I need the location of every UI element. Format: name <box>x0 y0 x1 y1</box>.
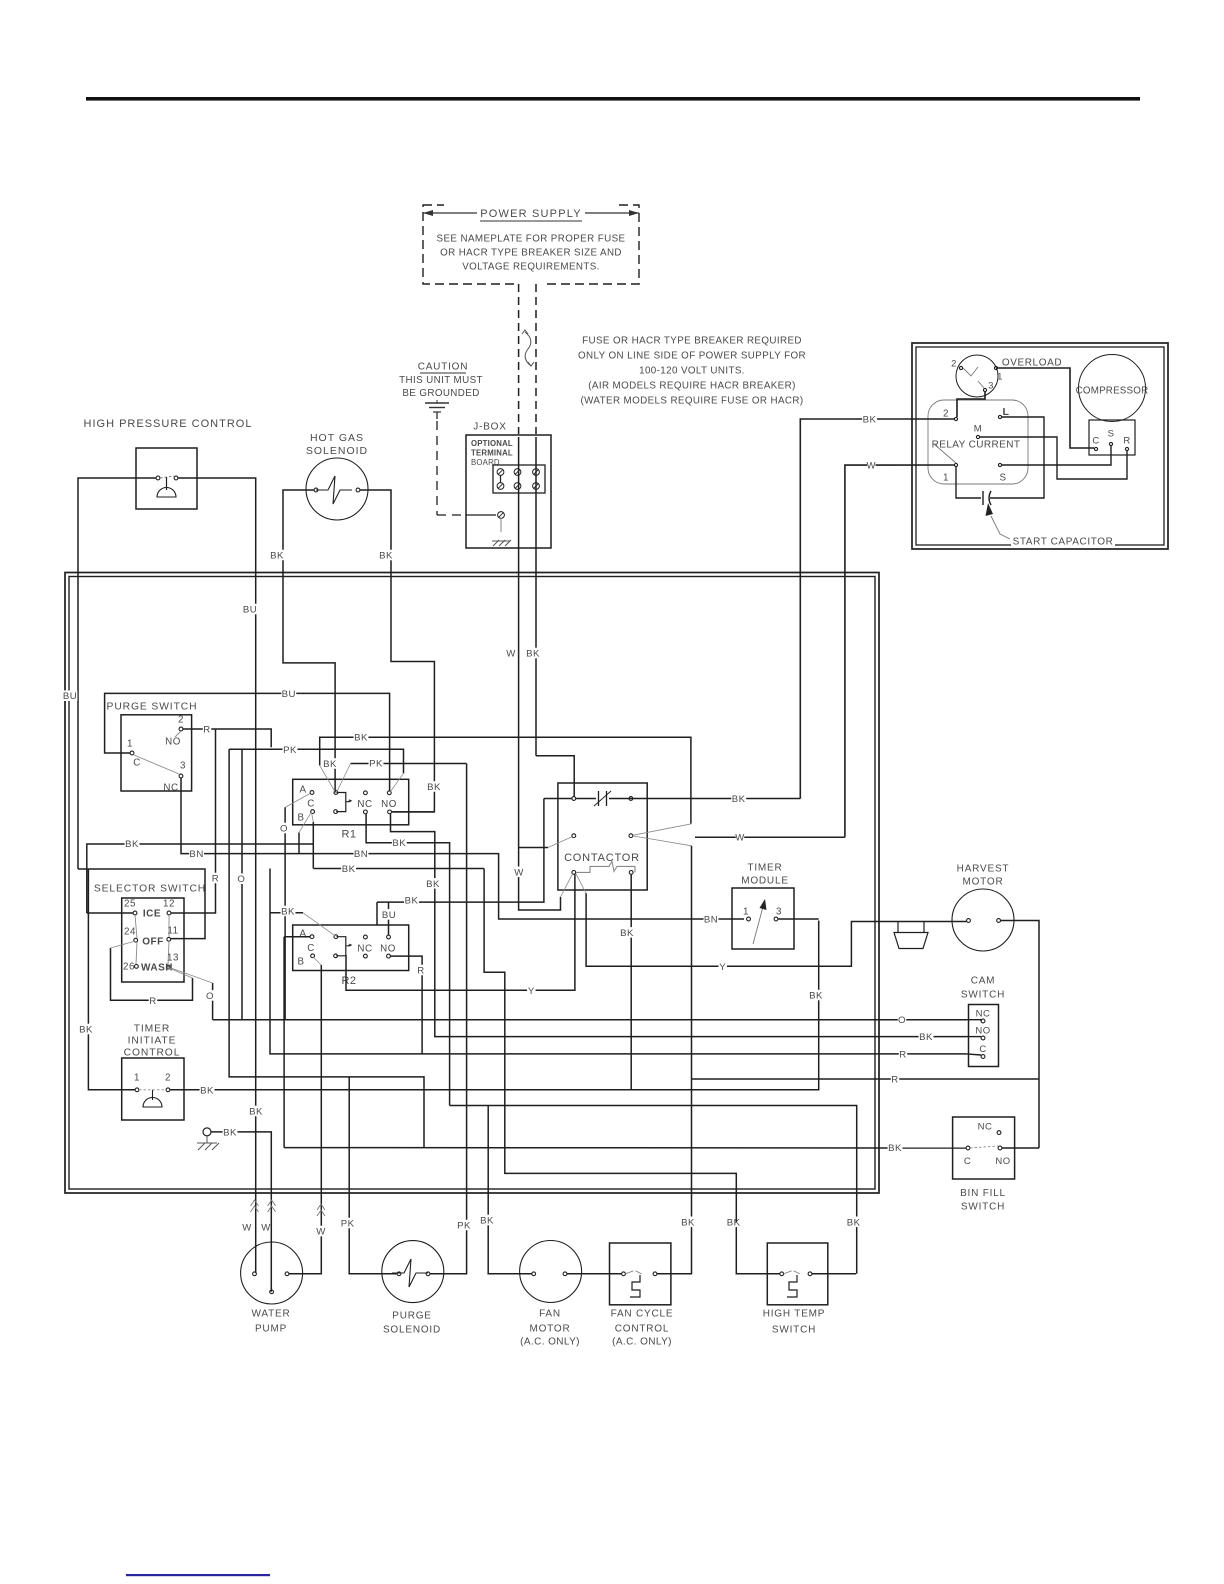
label PK left <box>340 1218 355 1229</box>
label PK right <box>457 1220 472 1231</box>
label PK stub <box>369 758 384 769</box>
high temp box <box>767 1243 828 1305</box>
svg-text:C: C <box>1092 435 1099 446</box>
svg-text:CONTROL: CONTROL <box>615 1324 670 1335</box>
svg-text:Y: Y <box>719 962 726 973</box>
selector switch title <box>94 882 205 893</box>
wire BU sel11 <box>78 869 205 939</box>
svg-text:TERMINAL: TERMINAL <box>471 448 513 457</box>
label BK868 <box>341 863 356 874</box>
wire fan cycle riser <box>657 846 692 1274</box>
svg-text:BN: BN <box>354 849 368 860</box>
wire BK844 <box>87 844 313 913</box>
water pump title1 <box>253 1308 290 1319</box>
start capacitor leader <box>991 516 1010 539</box>
svg-text:R: R <box>203 724 210 735</box>
terminal screw 31 <box>533 469 540 476</box>
wire capacitor to relay L <box>990 417 1044 498</box>
fan cycle title1 <box>610 1308 675 1319</box>
label PK main <box>283 744 298 755</box>
label BK hotgas drop <box>323 758 338 769</box>
wire purge sol right <box>430 764 467 1274</box>
svg-text:BU: BU <box>243 604 257 615</box>
purge switch title <box>107 700 196 711</box>
bin fill switch box <box>953 1117 1015 1179</box>
label W3 <box>317 1226 325 1237</box>
circuit breaker symbol <box>525 332 531 366</box>
svg-text:2: 2 <box>943 409 949 420</box>
svg-text:NO: NO <box>975 1025 990 1036</box>
wire cam NO in <box>967 1036 982 1038</box>
svg-text:BK: BK <box>727 1217 741 1228</box>
wire cam NC in <box>967 1020 982 1021</box>
wire R loop <box>111 948 193 1000</box>
wire R2 Y drop <box>346 874 575 990</box>
svg-text:FAN CYCLE: FAN CYCLE <box>611 1309 674 1320</box>
wire purge1 BU loop <box>105 693 390 791</box>
high temp title1 <box>762 1308 827 1319</box>
selector wipers <box>135 915 169 965</box>
overload title <box>1004 357 1060 368</box>
main enclosure outer box <box>65 573 879 1194</box>
timer terminals <box>747 917 751 921</box>
tic wiper <box>139 1089 166 1091</box>
svg-text:BK: BK <box>392 838 406 849</box>
label R cam line <box>899 1049 907 1060</box>
wire R1C drop <box>312 822 314 869</box>
purge wiper <box>134 755 179 774</box>
purge solenoid circle <box>382 1241 444 1303</box>
svg-text:S: S <box>999 473 1006 484</box>
high temp title2 <box>772 1324 816 1335</box>
svg-text:(AIR MODELS REQUIRE HACR BREAK: (AIR MODELS REQUIRE HACR BREAKER) <box>588 381 796 392</box>
wire PK main <box>229 749 403 773</box>
svg-text:MOTOR: MOTOR <box>962 877 1003 888</box>
svg-text:NO: NO <box>381 799 397 810</box>
wire purge2 R <box>183 729 271 747</box>
svg-text:BK: BK <box>125 839 139 850</box>
wire sel25 stub <box>87 912 133 914</box>
wire PK left drop <box>229 749 424 1147</box>
svg-text:BK: BK <box>323 759 337 770</box>
svg-text:VOLTAGE REQUIREMENTS.: VOLTAGE REQUIREMENTS. <box>462 262 600 273</box>
fan cycle title3 <box>605 1336 680 1347</box>
svg-text:BN: BN <box>704 914 718 925</box>
svg-text:NC: NC <box>976 1008 991 1019</box>
purge switch box <box>121 715 192 791</box>
terminal screw 22 <box>514 483 521 490</box>
label BK timer drop <box>809 990 824 1001</box>
wire contactor coil drop <box>630 874 632 1089</box>
wire BK1090 <box>170 921 819 1090</box>
wire binfill NO out <box>1002 1147 1039 1149</box>
svg-text:MODULE: MODULE <box>741 876 789 887</box>
svg-text:BK: BK <box>863 414 877 425</box>
bin fill title2 <box>961 1201 1005 1212</box>
wire hot gas left BK <box>283 490 335 793</box>
svg-text:BK: BK <box>270 550 284 561</box>
wire supply L2 dashed <box>535 284 537 434</box>
svg-text:INITIATE: INITIATE <box>128 1036 177 1047</box>
svg-text:SOLENOID: SOLENOID <box>383 1325 441 1336</box>
label BU main <box>281 688 296 699</box>
fan motor title2 <box>532 1323 569 1334</box>
svg-text:1: 1 <box>743 907 749 918</box>
terminal screw 12 <box>497 483 504 490</box>
leader W coil <box>561 874 573 897</box>
wire binfill drop <box>283 937 285 1148</box>
fan cycle box <box>610 1243 671 1305</box>
timer arrow <box>753 903 764 944</box>
svg-text:BK: BK <box>620 928 634 939</box>
label R purge2 <box>203 724 211 735</box>
cam switch title1 <box>972 975 995 986</box>
hot gas solenoid element <box>316 476 352 504</box>
label O cam <box>898 1014 906 1025</box>
svg-text:100-120 VOLT UNITS.: 100-120 VOLT UNITS. <box>639 366 745 377</box>
wire binfill BK line <box>284 1147 966 1149</box>
purge terminals <box>179 727 183 731</box>
water pump circle <box>241 1242 303 1304</box>
svg-text:24: 24 <box>124 927 136 938</box>
wire compressor S to relay S <box>1002 446 1111 465</box>
svg-text:B: B <box>297 957 304 968</box>
svg-text:2: 2 <box>165 1073 171 1084</box>
svg-text:BK: BK <box>379 550 393 561</box>
wire BU R2NO <box>388 902 390 935</box>
fan motor terminals <box>532 1272 536 1276</box>
top rule <box>86 97 1140 101</box>
wire R1NCbot <box>366 814 450 1106</box>
bin terminals <box>997 1131 1001 1135</box>
relay wiper <box>934 444 956 463</box>
label BK912 <box>281 906 296 917</box>
label BN right2 <box>354 848 369 859</box>
svg-text:PK: PK <box>341 1218 355 1229</box>
label R vert <box>211 873 219 884</box>
svg-text:BK: BK <box>427 782 441 793</box>
svg-text:WATER: WATER <box>252 1309 291 1320</box>
compressor terminal box <box>1089 420 1135 455</box>
wire ground dashed down <box>436 421 438 515</box>
wire R1079 <box>692 1078 1040 1080</box>
svg-text:BU: BU <box>63 691 77 702</box>
label W contactor <box>515 867 523 878</box>
label BK tic right <box>200 1085 215 1096</box>
svg-text:PK: PK <box>369 758 383 769</box>
label BK camNO <box>919 1031 934 1042</box>
chevron W3 <box>317 1204 325 1216</box>
svg-text:(A.C. ONLY): (A.C. ONLY) <box>520 1337 580 1348</box>
label BU hpc left <box>63 690 78 701</box>
caution title <box>418 361 469 372</box>
svg-text:POWER SUPPLY: POWER SUPPLY <box>480 208 582 220</box>
label BN left <box>189 848 204 859</box>
label BK supply <box>526 648 541 659</box>
wire BK868 drop chain <box>484 869 737 1174</box>
tic title1 <box>133 1022 171 1033</box>
wire relay1 to capacitor <box>956 467 981 498</box>
svg-text:O: O <box>280 823 288 834</box>
wire fan motor drop <box>488 1106 532 1274</box>
chevron W2 <box>268 1200 276 1212</box>
harvest motor title1 <box>958 863 1009 874</box>
svg-text:R: R <box>212 873 219 884</box>
svg-text:(WATER MODELS REQUIRE FUSE OR: (WATER MODELS REQUIRE FUSE OR HACR) <box>580 396 803 407</box>
label R R2NO <box>417 965 425 976</box>
leader sel13 <box>169 968 192 978</box>
harvest terminals <box>967 919 971 923</box>
relay R1 box <box>293 779 409 825</box>
leader sel24 <box>111 941 135 948</box>
svg-text:A: A <box>299 929 306 940</box>
fan cycle switch <box>626 1271 642 1274</box>
timer module title2 <box>743 875 787 886</box>
svg-text:C: C <box>964 1156 971 1167</box>
harvest plug symbol <box>894 922 928 949</box>
leader mid right dn <box>633 836 692 846</box>
leader R1B <box>299 813 311 833</box>
wire ground dashed right <box>437 514 464 516</box>
label BN timer <box>704 914 719 925</box>
label BK hotgas right drop <box>427 781 442 792</box>
label BK feed <box>862 414 877 425</box>
svg-text:NO: NO <box>380 944 396 955</box>
wire BK737 <box>320 737 691 824</box>
leader R2C <box>313 957 321 965</box>
label O vert <box>237 873 245 884</box>
wire camNO vert <box>391 814 967 1037</box>
leader sel13 O <box>170 968 212 983</box>
label W right <box>736 832 744 843</box>
svg-text:BU: BU <box>382 910 396 921</box>
svg-text:1: 1 <box>127 739 133 750</box>
R2 terminals <box>310 935 314 939</box>
svg-text:J-BOX: J-BOX <box>473 422 506 433</box>
selector terminals <box>133 911 137 915</box>
svg-text:BK: BK <box>79 1024 93 1035</box>
leader R1A <box>285 794 310 808</box>
svg-text:W: W <box>261 1222 271 1233</box>
label BK hot gas left <box>270 550 285 561</box>
j-box outline <box>466 435 551 548</box>
svg-text:PK: PK <box>457 1220 471 1231</box>
leader mid right up <box>633 824 692 835</box>
svg-text:SWITCH: SWITCH <box>961 1202 1005 1213</box>
svg-text:R: R <box>899 1049 906 1060</box>
caution underline <box>420 372 466 374</box>
power supply right arrow <box>585 212 639 214</box>
label BK902 <box>404 895 419 906</box>
water pump terminals <box>253 1272 257 1276</box>
svg-text:W: W <box>514 867 524 878</box>
svg-text:NC: NC <box>357 944 372 955</box>
wire supply BK into box <box>535 437 537 756</box>
svg-text:BU: BU <box>282 689 296 700</box>
svg-text:SOLENOID: SOLENOID <box>306 445 368 457</box>
wire supply W into box <box>518 437 520 848</box>
cam terminals <box>981 1019 985 1023</box>
label BK coil drop <box>620 927 635 938</box>
leader Y2 <box>576 873 586 893</box>
svg-text:25: 25 <box>124 899 136 910</box>
wire O camNC <box>213 1019 967 1021</box>
wire hpc left drop <box>136 477 156 479</box>
relay terminals <box>954 417 957 420</box>
wire hpc left down BU <box>78 478 136 869</box>
svg-text:1: 1 <box>997 371 1003 382</box>
contactor capacitor <box>598 791 600 806</box>
wire fan motor to fan cycle <box>567 1273 622 1275</box>
label BU R2 <box>382 909 397 920</box>
tic terminals <box>135 1088 139 1092</box>
water pump title2 <box>256 1323 286 1334</box>
fan motor circle <box>520 1241 582 1303</box>
compressor compartment inner box <box>916 347 1164 545</box>
svg-text:PK: PK <box>283 745 297 756</box>
svg-text:11: 11 <box>167 926 178 937</box>
label BK ht right <box>846 1217 861 1228</box>
svg-text:BK: BK <box>888 1143 902 1154</box>
svg-text:W: W <box>316 1226 326 1237</box>
power supply title <box>482 207 580 219</box>
wire harvest right <box>1001 921 1039 1149</box>
label BK fancycle <box>681 1217 696 1228</box>
label BU hpc right <box>243 604 258 615</box>
wire BK feed to relay2 <box>800 419 954 799</box>
j-box title <box>472 421 509 432</box>
wire compressor R to relay M <box>980 437 1127 479</box>
wire ground BK <box>211 1132 271 1292</box>
svg-text:1: 1 <box>943 473 949 484</box>
svg-text:W: W <box>867 460 877 471</box>
power supply left arrow <box>423 212 477 214</box>
wire R1B drop <box>298 833 300 854</box>
svg-text:MOTOR: MOTOR <box>529 1324 570 1335</box>
svg-text:BK: BK <box>526 648 540 659</box>
hot gas solenoid circle <box>306 458 368 520</box>
wire contactor top row b <box>609 798 800 800</box>
label R loop <box>149 995 157 1006</box>
label Y right <box>718 961 726 972</box>
purge solenoid element <box>392 1259 428 1287</box>
label BK tic left <box>79 1024 94 1035</box>
svg-text:BK: BK <box>426 879 440 890</box>
j-box ground screw <box>466 514 496 516</box>
timer module box <box>732 888 794 949</box>
wire BK755 <box>536 756 574 797</box>
tic box <box>122 1058 184 1120</box>
fan cycle title2 <box>617 1323 668 1334</box>
wire cam C in <box>967 1054 982 1055</box>
svg-text:ONLY ON LINE SIDE OF POWER SUP: ONLY ON LINE SIDE OF POWER SUPPLY FOR <box>578 351 806 362</box>
relay current box <box>928 400 1028 484</box>
svg-text:2: 2 <box>178 715 184 726</box>
wire R2A line <box>284 936 310 938</box>
wire timer3 right <box>778 918 819 920</box>
svg-text:TIMER: TIMER <box>747 863 782 874</box>
cam switch title2 <box>961 989 1005 1000</box>
fan cycle terminals <box>622 1272 626 1276</box>
compressor circle <box>1079 355 1146 422</box>
label BK hot gas right <box>379 550 394 561</box>
wire O sel13 drop <box>212 983 214 1020</box>
label BK waterleft <box>249 1106 264 1117</box>
hpc contacts <box>156 476 160 480</box>
wire purge sol left <box>349 1077 397 1274</box>
wire R2NO R drop <box>391 956 423 1054</box>
main enclosure inner box <box>69 577 875 1190</box>
label O R1A <box>280 823 288 834</box>
power supply title underline <box>480 220 582 222</box>
svg-text:NC: NC <box>163 783 178 794</box>
svg-text:S: S <box>1108 428 1115 439</box>
svg-text:BIN FILL: BIN FILL <box>960 1188 1006 1199</box>
R1 armature <box>336 793 346 812</box>
svg-text:BK: BK <box>223 1127 237 1138</box>
svg-text:BK: BK <box>405 895 419 906</box>
wire overload1 to compressor C <box>997 368 1094 448</box>
svg-text:OPTIONAL: OPTIONAL <box>471 439 513 448</box>
wire W chain2 <box>519 848 561 911</box>
svg-text:THIS UNIT MUST: THIS UNIT MUST <box>399 375 483 386</box>
wire R vert <box>171 729 216 913</box>
power supply box white gaps <box>444 200 618 210</box>
svg-text:Y: Y <box>528 986 535 997</box>
j-box ground hatch <box>492 540 511 546</box>
svg-text:26: 26 <box>123 962 135 973</box>
svg-text:PUMP: PUMP <box>255 1324 287 1335</box>
bin fill title1 <box>954 1187 1012 1198</box>
R2 armature <box>336 937 346 956</box>
svg-text:CAM: CAM <box>971 976 996 987</box>
terminal screw link <box>500 475 502 483</box>
svg-text:HIGH TEMP: HIGH TEMP <box>763 1309 826 1320</box>
wire BK1105 <box>450 1106 857 1274</box>
label BK fanfeed <box>480 1215 495 1226</box>
svg-text:HOT GAS: HOT GAS <box>310 432 364 444</box>
wire high temp left <box>736 1222 779 1274</box>
label W feed <box>867 460 875 471</box>
label O sel13 <box>206 990 214 1001</box>
compressor terminals <box>1094 447 1097 450</box>
box ground circle <box>203 1128 211 1136</box>
svg-text:BK: BK <box>919 1032 933 1043</box>
svg-text:TIMER: TIMER <box>134 1024 171 1035</box>
footer blue line <box>126 1574 270 1576</box>
wire R1NObot row <box>392 811 435 813</box>
svg-text:BK: BK <box>342 864 356 875</box>
overload circle <box>956 355 998 397</box>
terminal board outline <box>493 465 545 493</box>
label BK844 <box>125 838 140 849</box>
label W1 <box>243 1222 251 1233</box>
svg-text:PURGE: PURGE <box>392 1311 432 1322</box>
wire BK902b <box>377 799 544 903</box>
svg-text:R: R <box>891 1074 898 1085</box>
label BK ground <box>223 1127 238 1138</box>
label BK843 <box>392 837 407 848</box>
svg-text:B: B <box>297 813 304 824</box>
label Y left <box>527 985 535 996</box>
svg-text:R: R <box>1123 435 1130 446</box>
svg-text:W: W <box>242 1222 252 1233</box>
svg-text:BK: BK <box>809 990 823 1001</box>
svg-text:NC: NC <box>357 799 372 810</box>
label BK contactor <box>731 793 746 804</box>
high temp switch symbol <box>784 1271 800 1274</box>
svg-text:BK: BK <box>732 794 746 805</box>
